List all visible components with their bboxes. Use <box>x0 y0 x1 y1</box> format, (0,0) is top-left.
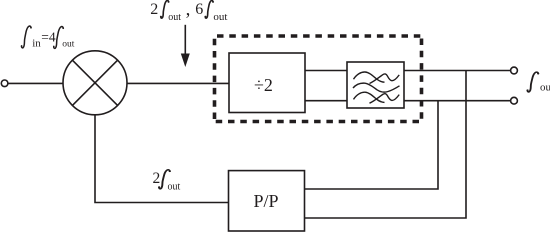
divider box U1 <box>229 53 305 113</box>
filter wave bottom <box>354 92 400 103</box>
input terminal <box>1 80 8 87</box>
svg-text:÷2: ÷2 <box>254 75 273 95</box>
svg-text:out: out <box>540 82 550 94</box>
label 2f_out (feedback) <box>153 170 181 193</box>
svg-text:out: out <box>168 12 181 23</box>
label f_out (output) <box>526 72 550 93</box>
svg-text:out: out <box>213 11 227 23</box>
svg-text:out: out <box>62 40 75 50</box>
wire from bottom output down to P/P upper output <box>305 101 439 189</box>
svg-text:2: 2 <box>150 1 158 18</box>
svg-text:in: in <box>32 38 41 50</box>
P/P box U3 <box>229 171 305 231</box>
label 2f_out , 6f_out <box>150 0 227 23</box>
svg-text:P/P: P/P <box>254 191 279 211</box>
output wire top <box>404 70 511 72</box>
svg-text:,: , <box>186 0 191 20</box>
svg-text:out: out <box>168 182 181 193</box>
wire input to mixer <box>8 82 63 84</box>
wire mixer to divider <box>127 82 229 84</box>
output terminal bottom <box>511 97 518 104</box>
mixer X1 <box>63 51 127 115</box>
svg-text:6: 6 <box>195 1 203 18</box>
output wire bottom <box>404 100 511 102</box>
filter wave top <box>354 72 400 84</box>
feedback wire mixer to P/P <box>95 115 229 203</box>
wire divider to filter (top) <box>305 70 347 72</box>
wire divider to filter (bottom) <box>305 100 347 102</box>
svg-text:=4: =4 <box>41 29 56 44</box>
label f_in = 4f_out <box>21 26 75 49</box>
filter wave middle <box>353 83 400 92</box>
arrow pointing to wire <box>181 25 190 67</box>
svg-text:2: 2 <box>153 170 161 187</box>
filter box U2 <box>347 62 404 108</box>
output terminal top <box>511 67 518 74</box>
wire from top output down to P/P lower output <box>305 71 467 219</box>
dashed box (PLL section) <box>215 36 422 122</box>
